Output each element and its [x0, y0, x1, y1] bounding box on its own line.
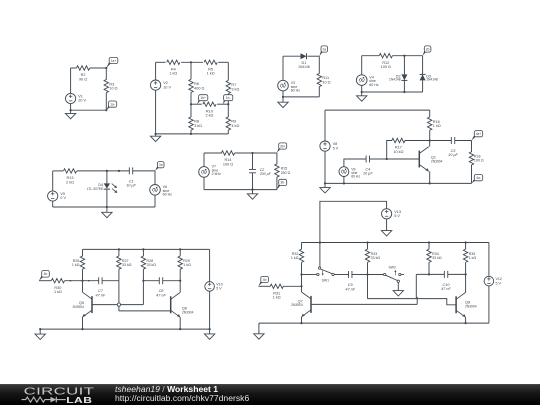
wire R17 to collector node: [405, 140, 430, 142]
label R29 value: [183, 259, 191, 267]
svg-text:1a+: 1a+: [111, 59, 117, 63]
svg-text:33 kΩ: 33 kΩ: [147, 263, 157, 267]
wire R27 lower lead: [118, 269, 120, 281]
label R13 value: [66, 176, 74, 184]
wire V13 bottom lead: [386, 219, 388, 231]
wire R35 lower lead: [465, 262, 467, 274]
svg-text:4 kΩ: 4 kΩ: [231, 124, 239, 128]
wire D3 lower lead: [422, 80, 424, 92]
voltage source V1: [66, 93, 76, 103]
flag 4a-: [472, 175, 483, 184]
wire C2 lower lead: [252, 173, 254, 190]
resistor R13: [63, 169, 76, 173]
wire V4 top vertical: [361, 56, 363, 75]
transistor Q1: [419, 147, 429, 172]
svg-text:1 kΩ: 1 kΩ: [273, 296, 281, 300]
wire c3 bottom rail: [283, 96, 319, 98]
resistor R6: [189, 79, 193, 92]
flag 3b-: [277, 179, 287, 189]
wire R32 upper lead: [301, 243, 303, 250]
junction V9 bottom c7: [343, 182, 345, 184]
wire ground stem c5: [106, 207, 108, 212]
wire LED cathode lead: [106, 189, 108, 207]
label R3 value: [109, 82, 117, 90]
voltage source V8: [320, 141, 330, 151]
junction V10 bottom: [209, 328, 211, 330]
flag 1b+: [197, 95, 208, 105]
label C8 value: [156, 289, 166, 297]
label Q6 name: [182, 307, 187, 311]
wire V2 bottom: [155, 90, 157, 134]
wire C1 to V6 node: [133, 170, 155, 172]
label C10 value: [441, 283, 451, 291]
flag 4a+: [472, 131, 483, 141]
label D3 part: [426, 78, 438, 82]
label R2 value: [79, 73, 87, 81]
transistor Q5: [83, 292, 93, 317]
wire ground stem left c8: [39, 329, 41, 334]
label Q5 name: [79, 301, 84, 305]
label D1 value: [301, 61, 306, 65]
label R33 value: [371, 252, 381, 260]
switch SW1: [317, 267, 335, 276]
svg-text:1 kΩ: 1 kΩ: [291, 256, 299, 260]
wire R17 corner: [387, 141, 392, 160]
junction V13 rail cross: [319, 241, 321, 243]
junction col2 sw row: [366, 273, 368, 275]
svg-text:10 Ω: 10 Ω: [109, 87, 117, 91]
wire c2 top-left: [156, 61, 166, 63]
wire input lead c9: [259, 285, 271, 287]
label R7 value: [231, 83, 239, 91]
svg-text:1N4148: 1N4148: [426, 78, 438, 82]
wire SW2 ground stem: [397, 282, 399, 290]
ground c4: [357, 96, 367, 101]
resistor R29: [178, 256, 182, 269]
wire R18 lower lead: [471, 165, 473, 184]
junction mid-right c2: [227, 103, 229, 105]
svg-text:33 kΩ: 33 kΩ: [432, 256, 442, 260]
wire c7 bottom rail: [325, 182, 472, 184]
wire R4 to mid column: [181, 61, 203, 63]
footer title line: [115, 384, 218, 394]
svg-text:400 Ω: 400 Ω: [194, 86, 204, 90]
wire ground stem c1: [70, 110, 72, 113]
wire R34 lower lead: [428, 262, 430, 274]
label D2 name: [396, 74, 401, 78]
svg-text:100 Ω: 100 Ω: [223, 162, 233, 166]
wire V10 top lead: [209, 249, 211, 281]
label R10 value: [205, 109, 213, 117]
svg-text:2 kHz: 2 kHz: [212, 172, 221, 176]
resistor R26: [80, 256, 84, 269]
svg-text:SW2: SW2: [389, 266, 396, 270]
wire R33 upper lead: [367, 243, 369, 250]
svg-text:2N3904: 2N3904: [465, 304, 477, 308]
wire col3 to Q5 base: [92, 304, 143, 306]
resistor R16: [428, 117, 432, 130]
footer url line: [115, 393, 249, 403]
svg-text:3a: 3a: [159, 163, 163, 167]
svg-text:250 Ω: 250 Ω: [281, 171, 291, 175]
resistor R5: [204, 60, 217, 64]
svg-text:33 kΩ: 33 kΩ: [371, 256, 381, 260]
resistor R34: [427, 249, 431, 262]
svg-text:2N3904: 2N3904: [431, 159, 443, 163]
wire Q5 emitter lead: [82, 317, 84, 329]
svg-text:47 nF: 47 nF: [96, 293, 106, 297]
svg-text:1 kΩ: 1 kΩ: [469, 256, 477, 260]
wire V8 top lead: [324, 110, 326, 141]
voltage source V2: [151, 80, 161, 90]
flag 1a+: [106, 57, 117, 68]
svg-text:4a-: 4a-: [476, 176, 481, 180]
svg-text:60 Hz: 60 Hz: [163, 193, 173, 197]
wire C2 upper lead: [252, 153, 254, 170]
wire R3 to bottom: [105, 93, 107, 111]
label R17 value: [393, 146, 403, 154]
junction extra top c5: [118, 170, 120, 172]
flag 4b input c8: [39, 271, 49, 281]
wire R7 to mid rail: [227, 94, 229, 105]
wire D1 to node 2a: [308, 55, 320, 57]
capacitor C3: [451, 137, 454, 144]
wire R31 to col1: [283, 285, 301, 287]
wire D2 lower lead: [403, 80, 405, 92]
wire D3 upper lead: [422, 56, 424, 75]
label Q1 part: [431, 159, 443, 163]
ground c2: [150, 136, 160, 141]
resistor R27: [117, 256, 121, 269]
capacitor C7: [99, 277, 102, 284]
wire V12 bottom lead: [488, 286, 490, 323]
wire V8 bottom lead: [324, 151, 326, 183]
wire D2 upper lead: [403, 56, 405, 75]
wire V5 bottom lead: [52, 201, 54, 207]
label C9 value: [345, 283, 355, 291]
wire c5 bottom rail: [53, 206, 155, 208]
label R31 value: [273, 292, 281, 300]
label Q7 name: [298, 299, 303, 303]
label C2 name: [259, 168, 272, 176]
svg-text:60 Hz: 60 Hz: [351, 174, 360, 178]
wire c6 top-left: [204, 152, 222, 154]
resistor R4: [167, 60, 180, 64]
svg-text:2N3904: 2N3904: [291, 303, 303, 307]
logo resistor glyph: [22, 397, 51, 402]
wire circuit1 bottom: [71, 109, 107, 111]
label SW1 name: [322, 279, 329, 283]
voltage source V4 sine: [356, 75, 367, 86]
svg-text:60 Hz: 60 Hz: [369, 83, 379, 87]
svg-text:1b+: 1b+: [200, 96, 206, 100]
svg-text:47 nF: 47 nF: [345, 287, 355, 291]
junction collector node c7: [429, 139, 431, 141]
resistor R31: [270, 284, 283, 288]
junction col4 capline c9: [465, 273, 467, 275]
svg-text:1b-: 1b-: [226, 96, 231, 100]
label V12 value: [496, 277, 502, 285]
svg-text:3 kΩ: 3 kΩ: [231, 87, 239, 91]
label C1 value: [126, 179, 136, 187]
label SW2 name: [389, 266, 396, 270]
junction D2 bottom: [403, 91, 405, 93]
voltage source V6 sine: [150, 185, 161, 196]
junction col3 capline c8: [142, 280, 144, 282]
junction C2 ground c6: [251, 189, 253, 191]
wire R2 to node A: [90, 67, 107, 69]
wire R18 upper lead: [471, 141, 473, 153]
wire R2 top segment: [71, 67, 77, 69]
wire c8 top rail: [83, 248, 210, 250]
wire col2 to Q6 base: [119, 310, 171, 312]
label Q5 part: [72, 305, 84, 309]
wire ground stem c6: [252, 190, 254, 194]
svg-text:4a+: 4a+: [476, 132, 482, 136]
label Q8 name: [465, 301, 470, 305]
svg-text:5 V: 5 V: [216, 287, 222, 291]
label V2 value: [163, 81, 171, 89]
wire V9 top corner: [344, 159, 366, 167]
switch SW2: [384, 270, 401, 282]
wire c3 top-left: [283, 55, 301, 57]
label V5 value: [60, 192, 66, 200]
voltage source V9 sine: [339, 167, 349, 177]
resistor R30: [51, 279, 64, 283]
label R16 value: [433, 120, 441, 128]
wire R13 to LED node: [77, 170, 130, 172]
svg-text:10 µF: 10 µF: [363, 172, 373, 176]
wire C7 to col2: [102, 280, 119, 282]
label R5 value: [207, 68, 215, 76]
label C7 value: [96, 289, 106, 297]
label V8 value: [333, 142, 339, 150]
junction c9 rail col3: [428, 241, 430, 243]
wire R29 upper lead: [179, 249, 181, 256]
diode D3: [420, 74, 426, 80]
LED D4: [104, 183, 118, 193]
label R27 value: [122, 259, 132, 267]
label V6 value: [163, 185, 173, 197]
wire R34 upper lead: [428, 243, 430, 250]
junction c9 rail col2: [366, 241, 368, 243]
junction bottom mid c2: [190, 133, 192, 135]
svg-text:20 V: 20 V: [78, 99, 86, 103]
wire R16 upper lead: [429, 110, 431, 117]
transistor Q7: [302, 292, 312, 317]
logo diode glyph: [51, 397, 66, 403]
junction LED top: [106, 170, 108, 172]
junction c8 rail col2: [118, 248, 120, 250]
junction Q6 emitter bottom: [179, 328, 181, 330]
wire capline left drop: [415, 274, 418, 304]
svg-text:10 Ω: 10 Ω: [322, 80, 330, 84]
svg-text:1 kΩ: 1 kΩ: [207, 72, 215, 76]
wire R27 upper lead: [118, 249, 120, 256]
svg-text:2a: 2a: [322, 47, 326, 51]
resistor R10: [203, 102, 216, 106]
wire C8 to col4: [163, 280, 181, 282]
wire R9 column: [227, 104, 229, 117]
svg-text:2 kΩ: 2 kΩ: [205, 114, 213, 118]
junction bottom V2 c2: [155, 133, 157, 135]
resistor R18: [469, 152, 473, 165]
svg-text:3b+: 3b+: [280, 144, 286, 148]
wire mid rail left: [191, 103, 202, 105]
svg-text:90 Ω: 90 Ω: [79, 77, 87, 81]
label V4 value: [369, 75, 379, 87]
resistor R33: [365, 249, 369, 262]
svg-text:0 V: 0 V: [60, 196, 66, 200]
resistor R2: [77, 66, 90, 70]
junction V3 ground c3: [282, 96, 284, 98]
wire Q7 emitter lead: [301, 317, 303, 323]
wire R8 column: [190, 104, 192, 117]
junction c9 rail col4: [465, 241, 467, 243]
label R18 value: [474, 155, 484, 163]
svg-text:3 kΩ: 3 kΩ: [194, 124, 202, 128]
transistor Q6: [171, 292, 181, 317]
logo text LAB: [66, 397, 92, 405]
svg-text:200 µF: 200 µF: [259, 172, 272, 176]
svg-text:LTL-307EE: LTL-307EE: [87, 187, 104, 191]
resistor R32: [299, 249, 303, 262]
wire V9 bottom lead: [343, 177, 345, 184]
wire col1 to Q7 collector: [301, 275, 303, 293]
capacitor C10: [444, 271, 447, 278]
wire R15 upper lead: [276, 153, 278, 164]
junction input col1 c8: [81, 280, 83, 282]
wire V12 top lead: [488, 243, 490, 277]
resistor R28: [141, 256, 145, 269]
wire col1 to Q5 collector: [82, 281, 84, 293]
label V7 value: [212, 165, 221, 177]
wire col2 down c9: [367, 275, 369, 299]
wire R15 lower lead: [276, 177, 278, 190]
diode D2: [401, 74, 407, 80]
junction Q8 emitter bottom: [465, 322, 467, 324]
junction LED ground c5: [106, 206, 108, 208]
wire col4 to Q8 collector: [465, 274, 467, 292]
resistor R35: [463, 249, 467, 262]
svg-text:3b-: 3b-: [280, 181, 285, 185]
junction V4 ground c4: [361, 91, 363, 93]
wire R28 upper lead: [142, 249, 144, 256]
label D4 name: [98, 183, 103, 187]
wire V5 top vertical: [52, 171, 54, 191]
resistor R3: [104, 80, 108, 93]
wire c5 top-left: [53, 170, 64, 172]
wire R9 to bottom: [227, 130, 229, 134]
wire c9 bottom rail: [259, 322, 489, 324]
wire c9 top rail: [302, 242, 489, 244]
label D4 part: [87, 187, 104, 191]
label V13 value: [394, 210, 401, 218]
wire V10 bottom lead: [209, 291, 211, 329]
svg-text:SW1: SW1: [322, 279, 329, 283]
wire c8 bottom rail: [40, 328, 209, 330]
junction col4 capline c8: [179, 280, 181, 282]
voltage source V10: [205, 282, 215, 292]
wire c7 top rail: [325, 109, 430, 111]
ground right c8: [204, 334, 214, 339]
wire ground stem c9: [258, 323, 260, 334]
wire R35 upper lead: [465, 243, 467, 250]
wire R11 upper lead: [318, 56, 320, 73]
label Q8 part: [465, 304, 477, 308]
wire R26 lower lead: [82, 269, 84, 281]
label D2 part: [389, 78, 401, 82]
svg-text:1 kΩ: 1 kΩ: [169, 72, 177, 76]
wire R11 lower lead: [318, 87, 320, 97]
wire ground stem c7: [324, 183, 326, 187]
wire col2 to Q8 base: [368, 299, 457, 305]
svg-text:4b: 4b: [263, 278, 267, 282]
wire node A to R3: [105, 68, 107, 80]
capacitor C1: [129, 167, 132, 174]
wire C10 line: [416, 273, 444, 275]
wire V2 top vertical: [155, 62, 157, 80]
svg-text:10 µF: 10 µF: [448, 153, 458, 157]
wire input lead c8: [39, 280, 51, 282]
label Q6 part: [182, 311, 194, 315]
svg-text:1 kΩ: 1 kΩ: [72, 263, 80, 267]
label R32 value: [291, 252, 299, 260]
svg-text:CIRCUIT: CIRCUIT: [24, 385, 95, 397]
footer bar: [0, 384, 540, 405]
junction V8 ground c7: [324, 182, 326, 184]
label R26 value: [72, 259, 80, 267]
wire nub r30 c8: [70, 280, 72, 282]
label R8 value: [194, 120, 202, 128]
junction mid-left c2: [190, 103, 192, 105]
voltage source V7 sine: [199, 167, 210, 178]
capacitor C4: [366, 156, 369, 163]
flag 1a-: [106, 101, 116, 110]
svg-text:4b: 4b: [44, 272, 48, 276]
junction Q5 emitter bottom: [81, 328, 83, 330]
voltage source V13: [382, 209, 392, 219]
wire col1 to SW1: [302, 274, 317, 276]
svg-text:5 V: 5 V: [394, 214, 400, 218]
wire C4 to base: [370, 158, 420, 160]
resistor R9: [226, 117, 230, 130]
wire C3 to out node: [455, 140, 472, 142]
label V10 value: [216, 282, 222, 290]
diode D1: [301, 53, 307, 59]
wire ground stem c2: [155, 134, 157, 136]
wire Q6 emitter lead: [179, 317, 181, 329]
resistor R12: [379, 54, 392, 58]
junction c8 rail col4: [179, 248, 181, 250]
wire R12 to D2 node: [392, 55, 422, 57]
flag 4b input c9: [259, 276, 269, 286]
wire c4 top-left: [362, 55, 380, 57]
svg-text:33 kΩ: 33 kΩ: [122, 263, 132, 267]
junction C2 top: [251, 152, 253, 154]
flag 2a: [319, 46, 327, 56]
wire V1 bottom: [70, 104, 72, 111]
label R15 value: [281, 167, 291, 175]
wire col2 down c8: [118, 281, 120, 311]
svg-text:1N4148: 1N4148: [298, 65, 310, 69]
junction input col1 c9: [300, 285, 302, 287]
flag 3a: [155, 162, 164, 171]
wire ground stem c3: [282, 97, 284, 102]
label D1 part: [298, 65, 310, 69]
capacitor C9: [349, 271, 352, 278]
node B junction: [105, 109, 107, 111]
